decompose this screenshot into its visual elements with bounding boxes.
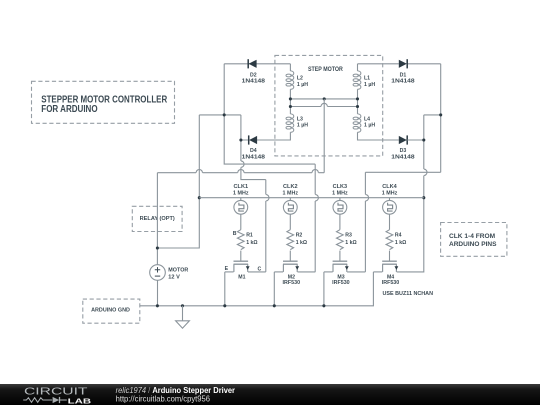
annotation box: STEP MOTOR (stepper outline) bbox=[275, 55, 383, 155]
svg-text:L2: L2 bbox=[297, 76, 303, 82]
wire: ground bus bbox=[140, 272, 374, 306]
wire: M1 drain stub bbox=[248, 271, 266, 273]
wire: M3 drain stub bbox=[347, 271, 365, 273]
svg-text:D4: D4 bbox=[250, 148, 257, 154]
svg-text:FOR ARDUINO: FOR ARDUINO bbox=[41, 104, 98, 115]
node: M1 source gnd bbox=[223, 304, 226, 307]
svg-text:MOTOR: MOTOR bbox=[168, 268, 188, 274]
voltage source V MOTOR 12V bbox=[150, 265, 166, 281]
svg-text:ARDUINO GND: ARDUINO GND bbox=[91, 307, 130, 313]
diode D1 1N4148 bbox=[399, 60, 407, 68]
svg-text:1 kΩ: 1 kΩ bbox=[345, 240, 356, 246]
wire: CLK2 to R2 bbox=[289, 214, 291, 230]
wire: M4 drain stub bbox=[396, 271, 398, 273]
svg-text:C: C bbox=[258, 266, 262, 272]
svg-text:L1: L1 bbox=[364, 76, 370, 82]
inductor L2 1uH bbox=[290, 71, 293, 89]
svg-text:CLK2: CLK2 bbox=[283, 184, 298, 190]
svg-text:L3: L3 bbox=[297, 117, 303, 123]
node: inner rail to CLK bus bbox=[422, 196, 425, 199]
inductor L4 1uH bbox=[358, 114, 361, 132]
wire: L2 top lead bbox=[289, 64, 291, 71]
svg-text:ARDUINO PINS: ARDUINO PINS bbox=[449, 241, 497, 248]
wire: R2 to gate bbox=[289, 251, 291, 261]
transistor M3 bbox=[333, 260, 348, 262]
resistor R3 1 kOhm bbox=[337, 230, 344, 250]
wire: M1 source to ground bbox=[225, 271, 234, 273]
wire: D2 cathode row (left top) bbox=[224, 63, 290, 65]
svg-text:M1: M1 bbox=[238, 274, 245, 280]
wire: CLK4 to R4 bbox=[389, 214, 391, 230]
svg-text:1 kΩ: 1 kΩ bbox=[296, 240, 307, 246]
transistor M1 bbox=[234, 260, 249, 262]
svg-text:12 V: 12 V bbox=[168, 275, 180, 281]
svg-text:D2: D2 bbox=[250, 72, 257, 78]
wire: CLK3 to R3 bbox=[339, 214, 341, 230]
annotation box: ARDUINO GND bbox=[83, 299, 140, 323]
node: center tap bbox=[323, 97, 326, 100]
wire: L3 bottom to D4 anode bbox=[241, 132, 291, 140]
wire: center tap vertical bbox=[323, 99, 325, 173]
svg-text:D3: D3 bbox=[400, 148, 407, 154]
wire: L1 top lead bbox=[357, 64, 359, 71]
svg-text:D1: D1 bbox=[400, 72, 407, 78]
wire: R4 to gate bbox=[389, 251, 391, 261]
svg-text:CLK1: CLK1 bbox=[234, 184, 249, 190]
resistor R2 1 kOhm bbox=[287, 230, 294, 250]
node: D3 to inner rail bbox=[422, 138, 425, 141]
wire: M2 source to ground bbox=[274, 271, 283, 273]
node: L1-L4 junction bbox=[356, 97, 359, 100]
wire: L4 bottom to D3 anode bbox=[358, 132, 399, 140]
svg-text:1 µH: 1 µH bbox=[297, 123, 308, 129]
wire: M2 drain stub bbox=[298, 271, 316, 273]
svg-text:1 µH: 1 µH bbox=[364, 82, 375, 88]
annotation box: CLK 1-4 FROM ARDUINO PINS bbox=[441, 223, 507, 257]
annotation box: RELAY (OPT) bbox=[132, 206, 182, 231]
node: L2-L3 junction bbox=[289, 97, 292, 100]
svg-text:1 kΩ: 1 kΩ bbox=[395, 240, 406, 246]
wire: inner right rail with hop, down to M4 drain bbox=[397, 115, 427, 272]
diode D4 1N4148 bbox=[249, 136, 257, 144]
svg-text:STEP MOTOR: STEP MOTOR bbox=[308, 66, 343, 73]
wire: M2 drain vertical with bus hop bbox=[315, 164, 318, 272]
svg-text:CLK3: CLK3 bbox=[333, 184, 348, 190]
svg-text:USE BUZ11 NCHAN: USE BUZ11 NCHAN bbox=[383, 291, 434, 297]
wire: D1 junction horizontal bbox=[424, 114, 441, 116]
wire: motor+ to stepper center tap (with hops) bbox=[157, 170, 324, 173]
wire: CLK1 to R1 bbox=[240, 214, 242, 230]
node: D1 cathode junction bbox=[439, 113, 442, 116]
wire: L2 bottom to tap bbox=[289, 89, 291, 114]
wire: center tap lower (with hop) bbox=[290, 103, 357, 106]
resistor R4 1 kOhm bbox=[386, 230, 393, 250]
svg-text:E: E bbox=[225, 266, 229, 272]
svg-text:R4: R4 bbox=[395, 232, 402, 238]
svg-text:1N4148: 1N4148 bbox=[242, 154, 265, 160]
inductor L3 1uH bbox=[290, 114, 293, 132]
diode D3 1N4148 bbox=[399, 136, 407, 144]
svg-text:1N4148: 1N4148 bbox=[391, 79, 414, 85]
wire: center tap upper bbox=[290, 98, 357, 100]
wire: cathode junction horizontal bbox=[199, 114, 241, 116]
wire: D3 cathode to right rail bbox=[407, 139, 424, 141]
node: rail to CLK bus bbox=[198, 196, 201, 199]
svg-text:1 µH: 1 µH bbox=[297, 82, 308, 88]
svg-text:R3: R3 bbox=[345, 232, 352, 238]
transistor M2 bbox=[283, 260, 298, 262]
svg-text:IRF530: IRF530 bbox=[332, 280, 350, 286]
svg-text:1 MHz: 1 MHz bbox=[382, 191, 398, 197]
wire: M3 source to ground bbox=[324, 271, 333, 273]
svg-text:R2: R2 bbox=[296, 232, 303, 238]
inductor L1 1uH bbox=[358, 71, 361, 89]
node: motor top junction bbox=[156, 246, 159, 249]
svg-text:IRF530: IRF530 bbox=[283, 280, 301, 286]
svg-text:1 MHz: 1 MHz bbox=[332, 191, 348, 197]
svg-text:LAB: LAB bbox=[68, 396, 92, 405]
wire: L1 bottom to tap bbox=[357, 89, 359, 114]
wire: CLK bus (+12V) bbox=[199, 197, 423, 199]
wire: motor bottom to ground bus bbox=[157, 280, 159, 306]
wire: D4 cathode vertical with hops, to M1 drain bbox=[240, 115, 242, 140]
svg-text:1N4148: 1N4148 bbox=[242, 79, 265, 85]
svg-text:CLK 1-4 FROM: CLK 1-4 FROM bbox=[449, 233, 496, 240]
svg-text:1N4148: 1N4148 bbox=[391, 154, 414, 160]
ground symbol bbox=[182, 306, 184, 321]
wire: M3 drain line2B to right rail bbox=[365, 171, 440, 173]
wire: right rail from D1 bbox=[440, 64, 442, 173]
svg-text:B: B bbox=[233, 231, 237, 237]
transistor M4 bbox=[382, 260, 397, 262]
node: D2/D4 cathode junction bbox=[223, 113, 226, 116]
wire: D1 cathode to right rail bbox=[407, 63, 440, 65]
diode D2 1N4148 bbox=[249, 60, 257, 68]
svg-text:1 MHz: 1 MHz bbox=[233, 191, 249, 197]
svg-text:1 MHz: 1 MHz bbox=[283, 191, 299, 197]
svg-text:L4: L4 bbox=[364, 117, 370, 123]
svg-text:1 kΩ: 1 kΩ bbox=[246, 240, 257, 246]
wire: R1 to gate bbox=[240, 251, 242, 261]
svg-text:IRF530: IRF530 bbox=[382, 280, 400, 286]
wire: motor rail vertical through relay box bbox=[156, 173, 158, 265]
wire: M1 drain vertical with bus hop bbox=[266, 180, 269, 272]
wire: M3 drain vertical with bus hop bbox=[365, 172, 368, 272]
node: gnd symbol tap bbox=[181, 304, 184, 307]
node: D4 cathode junction bbox=[239, 138, 242, 141]
svg-text:http://circuitlab.com/cpyt956: http://circuitlab.com/cpyt956 bbox=[116, 394, 211, 403]
wire: M4 source to ground bbox=[373, 271, 382, 273]
svg-text:1 µH: 1 µH bbox=[364, 123, 375, 129]
wire: L1 top to D1 anode bbox=[358, 63, 399, 65]
node: motor gnd bbox=[156, 304, 159, 307]
resistor R1 1 kOhm bbox=[237, 230, 244, 250]
svg-text:CLK4: CLK4 bbox=[382, 184, 397, 190]
node: M3 source gnd bbox=[322, 304, 325, 307]
svg-text:R1: R1 bbox=[246, 232, 253, 238]
wire: D2 cathode down to junction and M2 drain branch (line1) bbox=[224, 64, 315, 164]
annotation box: STEPPER MOTOR CONTROLLER FOR ARDUINO bbox=[32, 81, 175, 123]
wire: left +12V rail down to motor row bbox=[157, 115, 199, 248]
node: M2 source gnd bbox=[273, 304, 276, 307]
wire: R3 to gate bbox=[339, 251, 341, 261]
